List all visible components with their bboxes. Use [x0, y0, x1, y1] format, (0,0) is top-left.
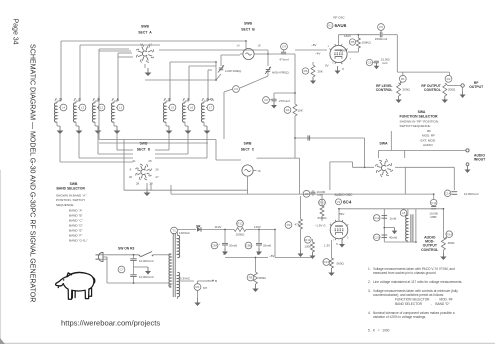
svg-text:Voltage measurements taken wit: Voltage measurements taken with PACO V-7…	[373, 267, 455, 271]
svg-text:L1: L1	[119, 106, 123, 110]
svg-text:Nominal tolerance of component: Nominal tolerance of component values ma…	[373, 311, 455, 315]
svg-text:SECT B: SECT B	[241, 28, 255, 32]
svg-text:BAND “A”: BAND “A”	[69, 209, 83, 213]
svg-text:BAND “F”: BAND “F”	[69, 234, 82, 238]
svg-text:L2: L2	[100, 106, 104, 110]
svg-text:6AU6: 6AU6	[335, 23, 347, 28]
svg-text:BAND “E”: BAND “E”	[69, 229, 83, 233]
svg-text:C6: C6	[264, 98, 268, 102]
svg-text:CONTROL: CONTROL	[376, 88, 393, 92]
svg-text:B: B	[215, 279, 217, 283]
svg-text:X: X	[336, 242, 338, 246]
svg-text:SECT D: SECT D	[137, 148, 151, 152]
svg-text:M1: M1	[195, 285, 199, 289]
svg-text:47mmf: 47mmf	[279, 58, 288, 62]
svg-text:110V: 110V	[254, 225, 261, 229]
svg-text:200Ω: 200Ω	[448, 87, 456, 91]
svg-text:.2mfd: .2mfd	[389, 216, 397, 220]
svg-text:SECT A: SECT A	[138, 31, 152, 35]
svg-text:C8A: C8A	[212, 244, 218, 248]
svg-text:18: 18	[257, 169, 261, 173]
svg-text:28: 28	[136, 182, 140, 186]
svg-text:2.: 2.	[368, 280, 371, 284]
svg-text:BAND “B”: BAND “B”	[69, 214, 83, 218]
svg-text:R12: R12	[237, 222, 243, 226]
svg-text:K = 1000: K = 1000	[373, 328, 390, 332]
svg-text:C10: C10	[374, 236, 380, 240]
svg-text:AUDIO OSC: AUDIO OSC	[335, 193, 354, 197]
svg-text:C8B: C8B	[246, 244, 252, 248]
svg-text:FUNCTION SELECTOR: FUNCTION SELECTOR	[400, 114, 439, 118]
svg-text:counterclockwise), and switche: counterclockwise), and switches preset a…	[373, 293, 444, 297]
svg-text:560Ω: 560Ω	[337, 261, 345, 265]
svg-text:R4: R4	[286, 108, 290, 112]
svg-text:SWB: SWB	[244, 22, 252, 26]
svg-text:1.: 1.	[368, 267, 371, 271]
svg-text:5.: 5.	[368, 328, 371, 332]
svg-text:BAND “G-G₂”: BAND “G-G₂”	[69, 239, 88, 243]
svg-text:L8: L8	[402, 211, 406, 215]
svg-text:3.: 3.	[368, 289, 371, 293]
svg-text:https://wereboar.com/projects: https://wereboar.com/projects	[61, 319, 160, 328]
svg-text:X: X	[342, 67, 344, 71]
svg-text:OUTPUT: OUTPUT	[469, 85, 484, 89]
svg-text:FUNCTION SELECTOR - MO: FUNCTION SELECTOR - MOD. RF	[395, 298, 453, 302]
svg-text:−8V: −8V	[269, 254, 274, 258]
svg-text:−4V: −4V	[315, 52, 320, 56]
svg-text:BAND SELECTOR: BAND SELECTOR	[57, 186, 86, 190]
svg-text:110V: 110V	[215, 225, 222, 229]
svg-text:10,000mmf: 10,000mmf	[139, 259, 154, 263]
svg-text:−8V: −8V	[311, 43, 316, 47]
svg-text:100V: 100V	[340, 48, 347, 52]
svg-text:V1: V1	[328, 24, 332, 28]
svg-text:R6: R6	[304, 69, 308, 73]
svg-text:V2: V2	[337, 200, 341, 204]
svg-text:HIGH FREQ.: HIGH FREQ.	[272, 71, 290, 75]
svg-text:83V: 83V	[339, 212, 344, 216]
svg-text:27: 27	[155, 175, 159, 179]
svg-text:A: A	[223, 252, 225, 256]
svg-text:20mfd: 20mfd	[263, 243, 271, 247]
svg-text:SWITCH SEQUENCE:: SWITCH SEQUENCE:	[400, 124, 431, 128]
svg-text:+: +	[218, 242, 220, 246]
svg-text:L4: L4	[62, 106, 66, 110]
svg-text:SR: SR	[196, 224, 201, 228]
svg-text:C4: C4	[282, 45, 286, 49]
svg-text:40mfd: 40mfd	[389, 236, 397, 240]
svg-text:L5: L5	[171, 106, 175, 110]
svg-text:130VAC: 130VAC	[179, 231, 191, 235]
svg-text:SWB: SWB	[141, 25, 149, 29]
svg-text:L3: L3	[81, 106, 85, 110]
svg-text:C12: C12	[374, 216, 380, 220]
svg-text:MMF: MMF	[431, 215, 438, 219]
svg-text:4.: 4.	[368, 311, 371, 315]
svg-text:C14: C14	[445, 192, 451, 196]
svg-text:270mmf: 270mmf	[279, 99, 290, 103]
svg-text:AUDIO: AUDIO	[423, 143, 433, 147]
svg-text:L6: L6	[190, 106, 194, 110]
svg-text:SWA: SWA	[379, 141, 388, 145]
svg-text:C7: C7	[120, 268, 124, 272]
svg-text:Line voltage maintained at 117: Line voltage maintained at 117 volts for…	[373, 280, 462, 284]
svg-text:SHOWN IN BAND “A”: SHOWN IN BAND “A”	[56, 193, 86, 197]
svg-text:1500mmf: 1500mmf	[375, 37, 388, 41]
svg-text:200Ω: 200Ω	[403, 87, 411, 91]
svg-text:SW ON R3: SW ON R3	[118, 247, 134, 251]
svg-text:6C4: 6C4	[343, 200, 352, 205]
svg-text:T1: T1	[172, 229, 176, 233]
svg-text:R14: R14	[446, 232, 452, 236]
svg-text:SHOWN IN “RF” POSITION.: SHOWN IN “RF” POSITION.	[400, 120, 439, 124]
svg-text:R8: R8	[249, 276, 253, 280]
svg-text:R2: R2	[447, 77, 451, 81]
svg-text:R11: R11	[305, 238, 311, 242]
svg-text:B: B	[257, 252, 259, 256]
svg-text:EXT. MOD.: EXT. MOD.	[421, 138, 437, 142]
svg-text:R9: R9	[287, 223, 291, 227]
svg-text:14: 14	[236, 43, 240, 47]
svg-text:C3: C3	[234, 87, 238, 91]
svg-text:variation of ±20% in voltage r: variation of ±20% in voltage readings.	[373, 315, 426, 319]
svg-text:CONTROL: CONTROL	[421, 248, 439, 252]
svg-text:C11: C11	[431, 201, 437, 205]
svg-text:Voltage measurements taken wit: Voltage measurements taken with controls…	[373, 289, 458, 293]
svg-text:BAND “C”: BAND “C”	[69, 219, 83, 223]
svg-text:250K: 250K	[448, 241, 455, 245]
svg-text:mmf: mmf	[382, 61, 388, 65]
svg-text:BAND “D”: BAND “D”	[69, 224, 83, 228]
svg-text:measured from socket pin to ch: measured from socket pin to chassis grou…	[373, 271, 437, 275]
svg-text:10K: 10K	[298, 108, 303, 112]
svg-text:2000Ω: 2000Ω	[236, 232, 245, 236]
svg-text:20K: 20K	[318, 69, 323, 73]
svg-text:R1: R1	[401, 77, 405, 81]
svg-text:R13: R13	[324, 260, 330, 264]
svg-text:6.3VAC: 6.3VAC	[180, 277, 191, 281]
svg-text:100KΩ: 100KΩ	[362, 40, 372, 44]
svg-text:20mfd: 20mfd	[229, 243, 237, 247]
svg-text:680Ω: 680Ω	[259, 276, 267, 280]
svg-text:IN/OUT: IN/OUT	[474, 158, 486, 162]
svg-text:SCHEMATIC DIAGRAM — MODEL G-30: SCHEMATIC DIAGRAM — MODEL G-30 AND G-30P…	[29, 44, 37, 302]
svg-text:18: 18	[257, 43, 261, 47]
svg-text:47K: 47K	[295, 222, 300, 226]
svg-text:30: 30	[129, 175, 133, 179]
svg-text:C5: C5	[379, 25, 383, 29]
svg-text:C6: C6	[368, 61, 372, 65]
svg-text:CONTROL: CONTROL	[424, 88, 441, 92]
svg-text:LOW FREQ.: LOW FREQ.	[225, 69, 242, 73]
svg-text:SWB: SWB	[140, 142, 148, 146]
svg-text:Page 34: Page 34	[12, 19, 19, 45]
svg-text:L7: L7	[209, 106, 213, 110]
svg-text:SWB: SWB	[244, 142, 252, 146]
svg-text:R5: R5	[351, 40, 355, 44]
svg-text:10,000mmf: 10,000mmf	[139, 275, 154, 279]
svg-text:0V: 0V	[325, 63, 329, 67]
svg-text:160V: 160V	[344, 34, 351, 38]
svg-text:25: 25	[148, 159, 152, 163]
svg-text:BAND SELECTOR - BA: BAND SELECTOR - BAND “D”	[395, 302, 450, 306]
svg-text:SECT C: SECT C	[241, 148, 255, 152]
svg-text:MOD. RF: MOD. RF	[422, 134, 435, 138]
svg-text:−1.5V G: −1.5V G	[315, 223, 327, 227]
svg-text:RF OSC: RF OSC	[333, 16, 345, 20]
svg-text:RF: RF	[427, 129, 431, 133]
svg-text:10,000mmf: 10,000mmf	[464, 192, 479, 196]
svg-text:M7: M7	[203, 286, 207, 290]
svg-text:1.3V: 1.3V	[324, 244, 330, 248]
svg-text:C9: C9	[305, 192, 309, 196]
svg-text:26: 26	[155, 167, 159, 171]
svg-text:SEQUENCE:: SEQUENCE:	[56, 203, 74, 207]
svg-text:100K: 100K	[305, 245, 312, 249]
svg-text:POSITION. SWITCH: POSITION. SWITCH	[56, 198, 85, 202]
